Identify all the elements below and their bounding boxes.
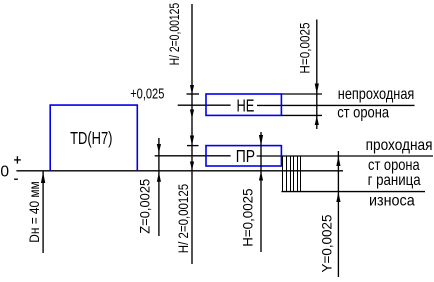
svg-text:проходная: проходная	[366, 137, 433, 154]
zero line	[16, 170, 343, 172]
NE top extension right	[281, 93, 322, 95]
svg-text:Y=0,0025: Y=0,0025	[319, 214, 335, 272]
dimension Dn arrowhead	[41, 172, 45, 183]
NE center line right	[257, 104, 415, 106]
NE top extension left	[187, 93, 200, 95]
gauge zone PR rect	[206, 146, 281, 166]
plus sign	[14, 156, 21, 163]
NE center line left	[178, 104, 231, 106]
dimension Z shaft	[158, 138, 160, 236]
PR top extension left	[187, 145, 199, 147]
H/2 arrowhead at PR top	[190, 136, 194, 146]
dimension H/2 long shaft	[191, 4, 193, 264]
gauge zone NE rect	[206, 94, 281, 115]
dimension H PR shaft	[260, 132, 262, 252]
svg-text:НЕ: НЕ	[237, 96, 255, 116]
svg-text:H=0,0025: H=0,0025	[240, 188, 256, 247]
tolerance zone TD(H7)	[50, 105, 137, 171]
svg-text:ст орона: ст орона	[337, 104, 389, 121]
H/2 arrowhead at zero line	[190, 162, 194, 171]
wear boundary line	[281, 191, 425, 193]
svg-text:TD(H7): TD(H7)	[70, 128, 112, 148]
dimension Z arrowhead bottom	[157, 173, 161, 182]
svg-text:г раница: г раница	[368, 172, 421, 189]
dimension H NE shaft	[316, 20, 318, 130]
H/2 arrowhead at NE top	[190, 85, 194, 94]
H NE arrowhead bottom	[315, 116, 319, 125]
H PR arrowhead top	[259, 135, 263, 146]
H/2 arrowhead at NE bottom	[190, 110, 194, 119]
svg-text:+0,025: +0,025	[130, 87, 164, 103]
svg-text:H=0,0025: H=0,0025	[296, 22, 312, 73]
dimension Z arrowhead top	[157, 144, 161, 153]
svg-text:ПР: ПР	[236, 146, 255, 166]
minus sign	[14, 178, 18, 180]
wear zone hatch	[283, 156, 301, 192]
dimension Dn shaft	[42, 171, 44, 253]
svg-text:Dн = 40 мм: Dн = 40 мм	[26, 181, 42, 242]
NE bottom extension right	[281, 114, 322, 116]
svg-text:непроходная: непроходная	[338, 86, 415, 103]
dimension Y shaft	[337, 151, 339, 277]
svg-text:Z=0,0025: Z=0,0025	[136, 179, 152, 234]
svg-text:Н/ 2=0,00125: Н/ 2=0,00125	[175, 184, 191, 253]
H PR arrowhead bottom	[259, 171, 263, 180]
H NE arrowhead top	[315, 84, 319, 95]
PR center line right / prohodnaya line	[257, 155, 433, 157]
PR center line left	[155, 155, 231, 157]
Y arrowhead bottom	[336, 192, 340, 202]
svg-text:0: 0	[0, 163, 9, 180]
svg-text:Н/ 2=0,00125: Н/ 2=0,00125	[166, 3, 182, 66]
Y arrowhead top	[336, 156, 340, 166]
svg-text:износа: износа	[369, 193, 415, 210]
